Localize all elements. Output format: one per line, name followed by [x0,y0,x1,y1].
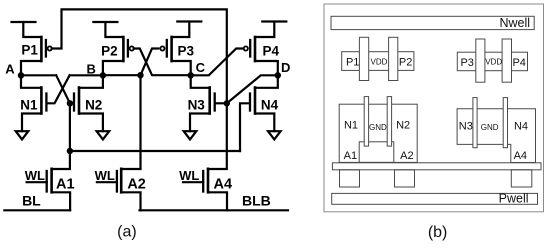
wire P3 gate diagonal to B junction [141,49,159,76]
poly gate over N4 [503,98,507,148]
svg-text:P2: P2 [399,57,412,69]
outer boundary box [324,4,544,212]
wire node A to lower cross [21,74,56,76]
N diffusion N1/N2/A1/A2 [339,104,417,162]
wire P4 drain to node D [255,61,278,75]
wire A2 source to BLB [121,192,140,210]
wire A row junction to A1 drain [52,151,70,169]
svg-text:WL: WL [179,168,199,183]
svg-text:P1: P1 [346,57,359,69]
wire N4 source [255,114,274,132]
svg-text:A4: A4 [514,150,527,162]
Nwell region [331,16,534,29]
wire WL to A4 gate [183,181,203,183]
wire node A row horizontal [70,103,240,151]
wire BL rail [4,209,70,211]
svg-text:A1: A1 [344,150,357,162]
wire BLB rail [140,209,289,211]
node B [100,72,106,78]
svg-text:WL: WL [25,168,45,183]
poly gate over P1 [359,37,368,80]
wire A1 source to BL [52,192,71,210]
node C [188,72,194,78]
poly gate over N3 [473,98,477,148]
node junction N3 gate / D [224,100,230,106]
contact tab below A1 [340,170,360,187]
transistor A4 [203,169,208,193]
svg-text:A: A [5,62,15,77]
svg-text:N2: N2 [396,119,410,131]
contact tab below A4 [511,170,532,187]
svg-text:A1: A1 [56,176,75,192]
svg-text:N3: N3 [459,120,473,132]
transistor P2 [123,37,133,61]
poly gate over P3 [476,39,485,82]
wire cross diagonal B to N1 gate [48,75,70,103]
svg-text:(b): (b) [428,224,448,241]
wire node B to lower cross [70,74,103,76]
transistor P1 [41,37,51,61]
wire N2 drain to node B [79,75,103,88]
node A [18,72,24,78]
wire junction to A2 drain [121,75,140,169]
contact tab below A2 [395,170,415,187]
VDD symbol for P1 [12,22,42,37]
wire node C to P4 gate [191,49,243,76]
svg-text:BL: BL [22,193,41,209]
wire N1 source [22,114,41,132]
VDD symbol for P3 [172,22,202,38]
transistor N3 [210,88,215,114]
svg-text:GND: GND [369,123,387,132]
svg-text:P2: P2 [101,44,118,59]
node junction A row [67,148,73,154]
svg-text:P3: P3 [178,44,195,59]
svg-text:VDD: VDD [371,57,388,66]
wire node D to N4 drain [255,75,278,88]
svg-text:P4: P4 [262,44,279,59]
P diffusion P1/P2 [342,52,414,71]
transistor P4 [244,37,255,61]
svg-text:N4: N4 [261,97,279,112]
wire node A to N1 drain [21,75,41,88]
wire cross diagonal A to N2 gate [56,75,70,103]
svg-text:D: D [281,60,290,75]
node junction N2 gate [67,100,73,106]
svg-text:Nwell: Nwell [499,16,530,30]
node D [275,72,281,78]
VDD symbol for P2 [93,22,123,37]
P diffusion P3/P4 [457,52,527,70]
wire A4 drain from N3 gate junction [208,103,227,169]
ground for N2 [97,131,110,139]
svg-text:WL: WL [95,168,115,183]
svg-text:N1: N1 [344,119,358,131]
transistor A2 [117,169,121,193]
wire N2 source [79,114,103,132]
wire P2 drain to node B [103,61,124,75]
svg-text:P3: P3 [460,57,473,69]
svg-text:P4: P4 [512,57,525,69]
transistor N1 [41,88,46,114]
svg-text:GND: GND [481,123,499,132]
VDD symbol for P4 [255,22,286,38]
transistor A1 [47,169,52,193]
svg-text:C: C [196,60,206,75]
wire WL to A2 gate [97,181,117,183]
transistor N4 [250,88,255,114]
poly gate over N2 [387,97,391,147]
node junction B row [137,72,143,78]
wire P1 gate to top rail to N3 gate junction [52,9,227,103]
svg-text:N2: N2 [85,97,102,112]
poly gate over P4 [502,39,511,82]
transistor N2 [74,88,79,114]
wire WL to A1 gate [27,181,47,183]
ground for N1 [16,131,29,139]
wire A4 source to BLB [208,192,227,210]
wire node B to upper cross junction [103,74,141,76]
Pwell region [332,193,538,204]
metal rail row [332,163,541,170]
wire P3 drain to node C [172,61,191,75]
wire P1 drain to node A [21,61,41,75]
svg-text:Pwell: Pwell [499,192,529,206]
svg-text:P1: P1 [21,42,38,57]
svg-text:N3: N3 [188,97,206,112]
svg-text:VDD: VDD [485,58,502,67]
svg-text:B: B [87,62,96,77]
wire N3 source [190,114,210,132]
wire node D to N3 gate junction [227,75,278,103]
wire N3 gate to junction [216,102,227,104]
poly gate over N1 [364,97,368,147]
svg-text:N1: N1 [20,97,38,112]
poly gate over P2 [389,37,398,80]
ground for N4 [268,131,281,139]
wire P2 gate diagonal to C row [134,49,191,76]
svg-text:A4: A4 [214,176,233,192]
ground for N3 [184,131,197,139]
svg-text:(a): (a) [117,224,137,241]
wire node C to N3 drain [191,75,210,88]
svg-text:A2: A2 [127,176,146,192]
svg-text:N4: N4 [514,120,528,132]
wire N4 gate down to node A wire [240,103,249,151]
N diffusion N3/N4/A4 [457,109,535,163]
transistor P3 [160,37,171,61]
svg-text:A2: A2 [400,150,413,162]
svg-text:BLB: BLB [242,193,271,209]
GND contact box [359,142,394,163]
wire N2 gate junction to gate bar [70,102,73,104]
